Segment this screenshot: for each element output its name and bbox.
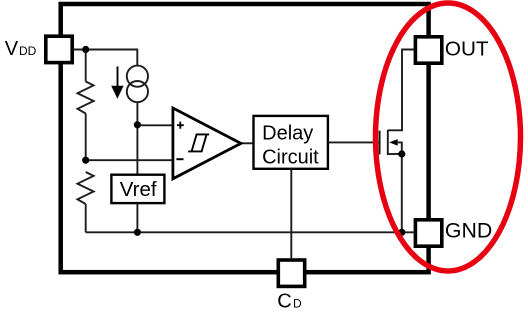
wire VDD pad to current-source corner xyxy=(74,50,137,66)
wire node down to Vref xyxy=(136,125,138,175)
OUT pin pad xyxy=(415,37,441,63)
svg-text:CD: CD xyxy=(277,291,302,313)
node C: divider mid junction xyxy=(82,157,89,164)
svg-text:Circuit: Circuit xyxy=(262,146,319,168)
IC outline box xyxy=(61,4,429,272)
node F: source to rail junction xyxy=(398,229,405,236)
current direction arrow xyxy=(117,67,119,89)
VDD pin pad xyxy=(46,36,72,62)
op-amp comparator U1 xyxy=(173,108,241,179)
node D: Vref bottom rail junction xyxy=(134,229,141,236)
transistor Q1 channel bar xyxy=(387,130,389,155)
svg-text:OUT: OUT xyxy=(445,38,489,61)
CD pin pad xyxy=(278,260,304,286)
wire MOSFET body/source tie xyxy=(398,142,402,154)
svg-text:Vref: Vref xyxy=(120,178,157,201)
wire delay circuit to CD pad xyxy=(290,169,292,258)
node B: current source / comparator + junction xyxy=(134,121,141,128)
wire node to comparator + input xyxy=(137,124,172,126)
wire delay circuit to MOSFET gate xyxy=(328,141,380,143)
wire current source bottom to node xyxy=(136,102,138,125)
wire divider node to comparator - input xyxy=(86,159,173,161)
wire mid divider node segment xyxy=(85,114,87,161)
node A: VDD rail junction xyxy=(82,46,89,53)
wire top divider segment xyxy=(85,50,87,82)
Vref block xyxy=(111,175,164,203)
resistor R1 (upper divider) xyxy=(78,82,94,114)
wire Vref bottom to bottom rail xyxy=(136,203,138,232)
wire MOSFET drain to OUT pad xyxy=(388,50,414,131)
svg-text:GND: GND xyxy=(445,219,492,243)
transistor Q1 (open-drain NMOS) gate bar xyxy=(379,131,381,155)
bottom internal rail wire to GND pad xyxy=(86,231,414,233)
GND pin pad xyxy=(415,220,441,246)
node E: MOSFET source tie junction xyxy=(398,150,405,157)
plus input mark xyxy=(177,124,184,126)
hysteresis symbol xyxy=(192,134,210,151)
minus input mark xyxy=(176,158,183,160)
wire MOSFET source bar xyxy=(388,153,402,155)
wire below lower resistor xyxy=(85,204,87,232)
svg-text:VDD: VDD xyxy=(5,38,37,60)
resistor R2 (lower divider) xyxy=(78,172,94,204)
svg-text:Delay: Delay xyxy=(262,122,313,144)
wire comparator output to delay circuit xyxy=(241,142,254,144)
red highlight ellipse xyxy=(376,3,521,271)
Delay Circuit block xyxy=(254,116,328,169)
transistor Q1 body arrow xyxy=(389,139,398,146)
current source I1 circles xyxy=(127,66,148,87)
wire MOSFET source down to bottom rail xyxy=(401,154,403,232)
